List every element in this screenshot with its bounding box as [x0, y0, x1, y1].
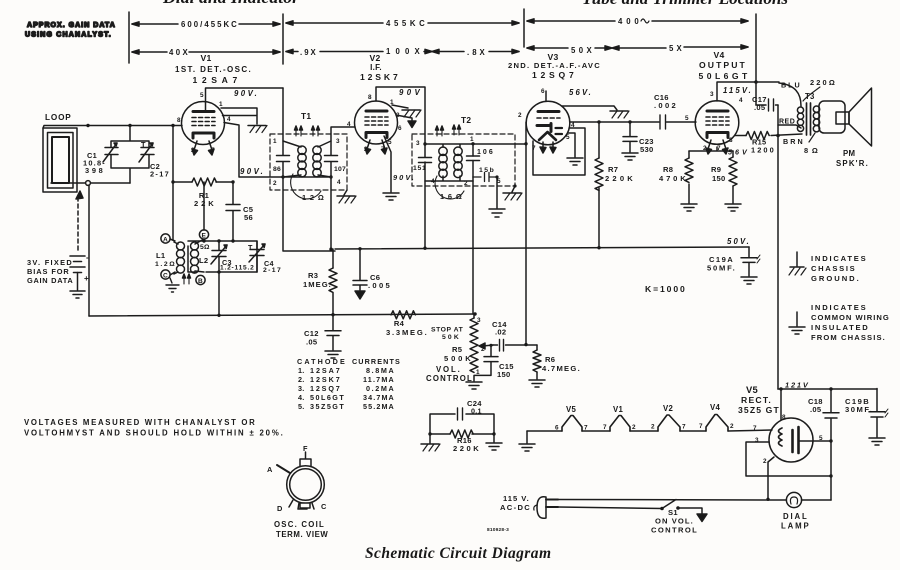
- svg-text:CHASSIS: CHASSIS: [811, 264, 855, 273]
- dimension tick 3: [523, 9, 525, 47]
- svg-text:FROM CHASSIS.: FROM CHASSIS.: [811, 333, 885, 342]
- svg-text:90V.: 90V.: [393, 173, 414, 182]
- svg-text:150: 150: [712, 174, 725, 183]
- T1 trimmer arrows: [295, 126, 320, 136]
- svg-text:50L6GT: 50L6GT: [310, 393, 344, 402]
- svg-text:2: 2: [651, 424, 655, 431]
- svg-text:90V.: 90V.: [234, 89, 257, 98]
- svg-text:220K: 220K: [605, 174, 633, 183]
- variable capacitor C3: [211, 241, 254, 272]
- svg-text:2: 2: [273, 180, 277, 187]
- dimension line 600/455KC: [132, 20, 280, 29]
- wire: V3 diode ground stub: [568, 133, 575, 157]
- terminal circle on loop return: [86, 181, 91, 186]
- svg-text:2: 2: [730, 423, 734, 430]
- label vol control: [426, 365, 472, 383]
- label V4: [699, 50, 749, 81]
- svg-text:7: 7: [211, 147, 215, 154]
- svg-text:A: A: [163, 237, 168, 244]
- svg-text:.8X: .8X: [467, 48, 486, 57]
- ground inside V3 box: [567, 158, 583, 165]
- svg-text:OUTPUT: OUTPUT: [699, 60, 746, 70]
- svg-text:1ST. DET.-OSC.: 1ST. DET.-OSC.: [175, 65, 251, 74]
- svg-text:V4: V4: [713, 50, 724, 60]
- svg-text:4: 4: [739, 97, 743, 104]
- svg-text:Schematic Circuit Diagram: Schematic Circuit Diagram: [365, 545, 551, 562]
- svg-text:4: 4: [347, 121, 351, 128]
- svg-text:.05: .05: [306, 338, 318, 347]
- dimension line 455KC: [286, 19, 519, 28]
- svg-text:T2: T2: [461, 115, 471, 125]
- wire: AC line to dial lamp: [558, 499, 786, 502]
- svg-text:2-17: 2-17: [150, 170, 169, 179]
- label 3V fixed bias: [27, 258, 73, 285]
- lower bus B minus: [89, 314, 476, 316]
- svg-text:1.2-115.2: 1.2-115.2: [220, 265, 254, 272]
- wire: V2 plate feed: [376, 87, 425, 248]
- resistor R16: [450, 430, 479, 453]
- wire: V1 screen 90V line: [224, 123, 283, 178]
- svg-text:15b: 15b: [479, 167, 494, 174]
- svg-text:470K: 470K: [659, 174, 686, 183]
- chassis ground at V3: [610, 111, 629, 118]
- T2 trimmer arrows: [436, 125, 461, 136]
- wire: RED lead: [778, 125, 801, 128]
- svg-text:1200: 1200: [751, 146, 774, 155]
- svg-text:56V: 56V: [728, 148, 748, 157]
- svg-text:RED: RED: [779, 119, 795, 126]
- svg-text:8: 8: [729, 137, 733, 144]
- switch S1: [660, 500, 707, 522]
- chassis ground at V1: [248, 126, 267, 133]
- capacitor C18: [808, 389, 839, 442]
- svg-text:4: 4: [227, 116, 231, 123]
- svg-text:1.: 1.: [298, 366, 305, 375]
- svg-text:8.8MA: 8.8MA: [366, 366, 394, 375]
- svg-text:107: 107: [334, 166, 346, 173]
- ground below terminal C: [166, 278, 179, 292]
- svg-text:11.7MA: 11.7MA: [363, 375, 394, 384]
- svg-text:BIAS FOR: BIAS FOR: [27, 267, 69, 276]
- svg-text:2: 2: [518, 112, 522, 119]
- svg-text:3: 3: [477, 317, 481, 324]
- wire: grid down to osc coil: [172, 126, 174, 241]
- heater hump V5: [555, 405, 588, 432]
- capacitor C15: [474, 345, 514, 379]
- svg-text:50X: 50X: [571, 46, 593, 55]
- wire: loop return: [51, 182, 130, 184]
- capacitor 107 in T1: [325, 156, 347, 174]
- wire: V3 grid and AVC line: [525, 122, 527, 344]
- svg-text:398: 398: [85, 166, 103, 175]
- svg-text:5: 5: [566, 134, 570, 141]
- pin labels V2: [347, 94, 402, 153]
- svg-text:1: 1: [219, 101, 223, 108]
- svg-text:STOP AT: STOP AT: [431, 327, 464, 334]
- dimension line 50X 5X: [527, 44, 748, 55]
- capacitor C5: [226, 205, 254, 223]
- pot terminal labels: [476, 317, 485, 376]
- wire: T1 bottom link: [283, 176, 331, 178]
- wire: ant section ground bus down: [88, 185, 90, 316]
- svg-text:600/455KC: 600/455KC: [181, 20, 237, 29]
- legend text insulated ground: [811, 303, 889, 342]
- svg-text:2: 2: [763, 458, 767, 465]
- label 12 ohm T1: [291, 174, 324, 202]
- svg-text:R5: R5: [452, 345, 463, 354]
- svg-text:.005: .005: [368, 281, 391, 290]
- svg-text:7: 7: [381, 146, 385, 153]
- svg-text:5X: 5X: [669, 44, 683, 53]
- tube V1 internals: [192, 112, 215, 156]
- tube V1 envelope: [182, 102, 225, 145]
- tube V4 envelope: [695, 101, 739, 145]
- oscillator coil terminal E: [199, 182, 208, 240]
- svg-text:VOL.: VOL.: [436, 365, 460, 374]
- svg-text:R3: R3: [308, 271, 318, 280]
- oscillator coil L1: [155, 242, 185, 274]
- svg-text:55.2MA: 55.2MA: [363, 402, 394, 411]
- wire: 15b to ground: [496, 177, 498, 208]
- svg-text:7: 7: [682, 424, 686, 431]
- svg-text:810928-3: 810928-3: [487, 527, 509, 533]
- svg-text:1: 1: [273, 138, 277, 145]
- capacitor C17: [752, 95, 778, 112]
- loop antenna: [43, 128, 77, 192]
- resistor R15: [735, 132, 802, 155]
- svg-text:RECT.: RECT.: [741, 395, 771, 405]
- dimension tick 1: [128, 12, 130, 63]
- ground below R8: [681, 204, 697, 211]
- svg-text:GROUND.: GROUND.: [811, 274, 859, 283]
- svg-text:INDICATES: INDICATES: [811, 254, 866, 263]
- legend text chassis ground: [811, 254, 866, 283]
- svg-text:D: D: [277, 504, 283, 513]
- wire: rectifier output node: [778, 388, 877, 390]
- legend: chassis ground symbol: [789, 252, 806, 275]
- potentiometer R5 volume control: [444, 314, 493, 381]
- svg-text:F: F: [303, 444, 308, 453]
- svg-text:R9: R9: [711, 165, 721, 174]
- svg-text:400: 400: [618, 17, 639, 26]
- svg-text:CONTROL: CONTROL: [651, 526, 697, 535]
- svg-text:12SA7: 12SA7: [310, 366, 340, 375]
- T2 pin labels: [416, 136, 501, 187]
- svg-text:6: 6: [555, 425, 559, 432]
- svg-text:R6: R6: [545, 355, 555, 364]
- svg-text:50MF.: 50MF.: [707, 264, 735, 273]
- capacitor 15b: [473, 167, 497, 182]
- svg-text:8: 8: [368, 94, 372, 101]
- ground at heater string end: [519, 431, 535, 451]
- svg-text:8: 8: [782, 414, 786, 421]
- coupling arrows L1 L2: [183, 274, 191, 284]
- svg-text:4.: 4.: [298, 393, 305, 402]
- svg-text:BLU: BLU: [781, 81, 800, 90]
- resistor R1: [192, 178, 216, 208]
- arrow ground at V2 pin3: [408, 121, 416, 128]
- capacitor C24 network: [430, 399, 494, 434]
- svg-text:6: 6: [398, 125, 402, 132]
- svg-text:7: 7: [699, 423, 703, 430]
- variable capacitor C2: [139, 140, 154, 162]
- wire: V2 pin3 to ground: [396, 115, 412, 121]
- ground below R9: [725, 204, 741, 211]
- svg-text:INSULATED: INSULATED: [811, 323, 868, 332]
- heater hump V1: [603, 405, 636, 431]
- svg-text:8: 8: [177, 117, 181, 124]
- svg-text:.05: .05: [810, 405, 822, 414]
- T2 secondary winding: [454, 147, 462, 155]
- svg-text:.002: .002: [654, 101, 676, 110]
- wire: V3 to chassis ground: [562, 106, 617, 110]
- svg-text:.9X: .9X: [300, 48, 317, 57]
- svg-text:3: 3: [710, 91, 714, 98]
- svg-text:CATHODE: CATHODE: [297, 357, 345, 366]
- svg-text:150: 150: [497, 370, 510, 379]
- svg-text:DIAL: DIAL: [783, 512, 807, 521]
- svg-text:115V.: 115V.: [723, 86, 751, 95]
- capacitor C14: [492, 320, 507, 351]
- variable capacitor C4: [248, 241, 281, 274]
- svg-text:56V.: 56V.: [569, 88, 591, 97]
- tube V2 internals: [365, 111, 388, 154]
- tube V5 internals: [779, 427, 814, 453]
- svg-text:+: +: [84, 274, 89, 283]
- label 220 ohm with pointer: [803, 78, 835, 101]
- label V2: [360, 53, 398, 82]
- svg-text:.02: .02: [495, 328, 506, 337]
- svg-text:OSC. COIL: OSC. COIL: [274, 520, 324, 529]
- wire: R1 top line: [173, 181, 233, 183]
- oscillator coil terminal B: [196, 275, 205, 285]
- label V1: [175, 53, 251, 85]
- svg-text:CONTROL: CONTROL: [426, 374, 472, 383]
- tube V3 envelope: [526, 101, 570, 145]
- svg-text:I.F.: I.F.: [370, 63, 382, 72]
- svg-text:56: 56: [244, 213, 253, 222]
- wire: T2 top link: [425, 144, 526, 181]
- svg-text:COMMON WIRING: COMMON WIRING: [811, 313, 889, 322]
- svg-text:3V. FIXED: 3V. FIXED: [27, 258, 72, 267]
- ground at V2 cathode: [383, 193, 399, 200]
- ground below 15b: [489, 209, 505, 217]
- pin labels V4: [685, 91, 743, 152]
- wire: V1 plate to T1: [206, 88, 284, 110]
- chassis ground at V2 pin1: [402, 110, 421, 117]
- svg-text:T1: T1: [301, 111, 311, 121]
- svg-text:V2: V2: [663, 404, 673, 413]
- battery: 3V fixed bias: [70, 191, 89, 290]
- svg-text:40X: 40X: [169, 48, 189, 57]
- svg-text:1MEG.: 1MEG.: [303, 280, 331, 289]
- svg-text:3: 3: [416, 140, 420, 147]
- svg-text:E: E: [202, 233, 207, 240]
- capacitor C6: [353, 249, 391, 290]
- svg-text:L1: L1: [156, 251, 166, 260]
- ground below battery: [70, 291, 85, 298]
- svg-text:12SQ7: 12SQ7: [532, 70, 574, 80]
- wire: wiper line: [493, 344, 537, 346]
- label osc coil term view: [274, 520, 328, 539]
- tube V2 envelope: [355, 101, 398, 144]
- svg-text:7: 7: [584, 425, 588, 432]
- wire: V3 plate stub: [545, 91, 547, 101]
- svg-text:12SK7: 12SK7: [360, 72, 398, 82]
- wire: V1 pin1 to chassis ground: [221, 108, 257, 124]
- svg-text:151: 151: [413, 165, 426, 172]
- svg-text:86: 86: [273, 166, 281, 173]
- svg-text:INDICATES: INDICATES: [811, 303, 866, 312]
- label RED: [779, 119, 795, 126]
- svg-text:.05: .05: [754, 103, 766, 112]
- transformer T1 box: [270, 134, 347, 190]
- pin labels V5: [753, 414, 823, 465]
- AVC bus: [335, 247, 749, 249]
- svg-text:AC-DC: AC-DC: [500, 503, 530, 512]
- svg-text:LAMP: LAMP: [781, 522, 809, 531]
- wire: V2 pin1 to chassis ground: [392, 105, 408, 108]
- label BLU and lead: [756, 81, 801, 107]
- svg-text:35Z5 GT: 35Z5 GT: [738, 405, 780, 415]
- svg-text:30MF.: 30MF.: [845, 405, 872, 414]
- cathode currents table: [297, 357, 400, 411]
- svg-text:2.: 2.: [298, 375, 305, 384]
- oscillator coil L2: [191, 239, 211, 273]
- dial lamp: [781, 492, 809, 530]
- svg-text:L2: L2: [199, 256, 208, 265]
- svg-text:455KC: 455KC: [386, 19, 425, 28]
- svg-text:220Ω: 220Ω: [810, 78, 835, 87]
- ground below R5: [466, 382, 482, 389]
- label S1 on vol control: [651, 508, 697, 535]
- ground below C23: [622, 153, 638, 160]
- T1 secondary winding: [318, 141, 331, 177]
- svg-text:A: A: [267, 465, 273, 474]
- svg-text:V2: V2: [369, 53, 380, 63]
- svg-text:4.7MEG.: 4.7MEG.: [542, 364, 580, 373]
- svg-text:GAIN DATA: GAIN DATA: [27, 276, 73, 285]
- pin labels V1: [177, 92, 231, 154]
- svg-text:2: 2: [191, 147, 195, 154]
- svg-text:BRN: BRN: [783, 137, 803, 146]
- svg-text:VOLTOHMYST AND SHOULD HOLD WIT: VOLTOHMYST AND SHOULD HOLD WITHIN ± 20%.: [24, 429, 283, 438]
- svg-text:LOOP: LOOP: [45, 113, 71, 122]
- svg-text:121V: 121V: [785, 381, 809, 390]
- variable capacitor C1: [103, 143, 118, 162]
- chassis ground at C24 left: [421, 434, 440, 451]
- svg-text:5.: 5.: [298, 402, 305, 411]
- svg-text:R4: R4: [394, 319, 405, 328]
- svg-text:90V: 90V: [399, 88, 421, 97]
- svg-text:V1: V1: [200, 53, 211, 63]
- label 16 ohm T2: [435, 176, 464, 201]
- label 8 ohm: [804, 133, 818, 155]
- dimension line 40X: [132, 48, 280, 57]
- svg-text:530: 530: [640, 145, 653, 154]
- svg-text:8Ω: 8Ω: [804, 146, 818, 155]
- T1 pin labels: [273, 138, 341, 187]
- capacitor C19B: [845, 389, 888, 438]
- capacitor C23: [623, 122, 654, 154]
- svg-text:TERM. VIEW: TERM. VIEW: [276, 530, 328, 539]
- svg-text:220K: 220K: [453, 444, 479, 453]
- svg-text:B: B: [198, 278, 203, 285]
- svg-text:SPK'R.: SPK'R.: [836, 159, 868, 168]
- osc coil terminal labels: [267, 444, 327, 513]
- svg-text:12SK7: 12SK7: [310, 375, 340, 384]
- svg-text:0.2MA: 0.2MA: [366, 384, 394, 393]
- svg-text:7: 7: [603, 424, 607, 431]
- ground below C19B: [869, 438, 885, 445]
- svg-text:16Ω: 16Ω: [440, 192, 462, 201]
- wire: V4 plate to B plus: [717, 82, 756, 101]
- svg-text:1.2Ω: 1.2Ω: [155, 261, 175, 268]
- speaker PM: [819, 88, 872, 168]
- svg-text:CURRENTS: CURRENTS: [352, 357, 400, 366]
- svg-text:2ND. DET.-A.F.-AVC: 2ND. DET.-A.F.-AVC: [508, 61, 600, 70]
- svg-text:34.7MA: 34.7MA: [363, 393, 394, 402]
- dimension line .9X 100X .8X: [286, 47, 519, 57]
- svg-text:3: 3: [755, 437, 759, 444]
- capacitor C19A: [707, 247, 760, 276]
- svg-text:106: 106: [477, 149, 493, 156]
- svg-text:T: T: [248, 243, 253, 252]
- svg-text:T3: T3: [805, 92, 815, 101]
- svg-text:R7: R7: [608, 165, 618, 174]
- svg-text:ON VOL.: ON VOL.: [655, 517, 693, 526]
- svg-text:100X: 100X: [386, 47, 421, 56]
- tube V4 internals: [706, 111, 729, 154]
- resistor R7: [595, 122, 633, 248]
- svg-text:V5: V5: [566, 405, 576, 414]
- pin labels V3: [518, 88, 575, 152]
- svg-text:90V.: 90V.: [240, 167, 263, 176]
- capacitor C1 C2 frame: [111, 126, 149, 184]
- svg-text:USING CHANALYST.: USING CHANALYST.: [25, 32, 111, 39]
- svg-text:Dial and Indicator: Dial and Indicator: [162, 0, 299, 7]
- note: voltages measured: [24, 418, 283, 438]
- resistor R4: [386, 311, 427, 337]
- dimension line 400cy: [527, 17, 748, 26]
- oscillator coil terminal C: [161, 270, 175, 280]
- resistor R3: [303, 249, 337, 315]
- wire: C5 branch: [232, 182, 234, 241]
- svg-text:3.3MEG.: 3.3MEG.: [386, 328, 427, 337]
- resistor R8: [659, 151, 693, 203]
- junction dots on grid wire: [86, 124, 174, 127]
- svg-text:12SQ7: 12SQ7: [310, 384, 340, 393]
- svg-text:12SA7: 12SA7: [193, 75, 238, 85]
- svg-text:3.: 3.: [298, 384, 305, 393]
- svg-text:V4: V4: [710, 403, 720, 412]
- heater hump V2: [651, 404, 686, 431]
- svg-text:Tube and Trimmer Locations: Tube and Trimmer Locations: [582, 0, 788, 8]
- label V3: [508, 52, 600, 80]
- chassis ground at T2 corner: [503, 184, 522, 200]
- capacitor C12: [304, 315, 341, 350]
- insulated ground below C6: [355, 291, 365, 299]
- svg-text:VOLTAGES MEASURED WITH CHANALY: VOLTAGES MEASURED WITH CHANALYST OR: [24, 418, 255, 427]
- svg-text:C: C: [163, 273, 168, 280]
- svg-text:5: 5: [200, 92, 204, 99]
- capacitor 106: [467, 144, 494, 177]
- svg-text:PM: PM: [843, 149, 855, 158]
- dimension tick 2: [282, 14, 284, 64]
- T2 primary winding: [439, 147, 447, 155]
- wire: lamp to filter column: [802, 499, 832, 501]
- label stop at 50K: [431, 327, 464, 342]
